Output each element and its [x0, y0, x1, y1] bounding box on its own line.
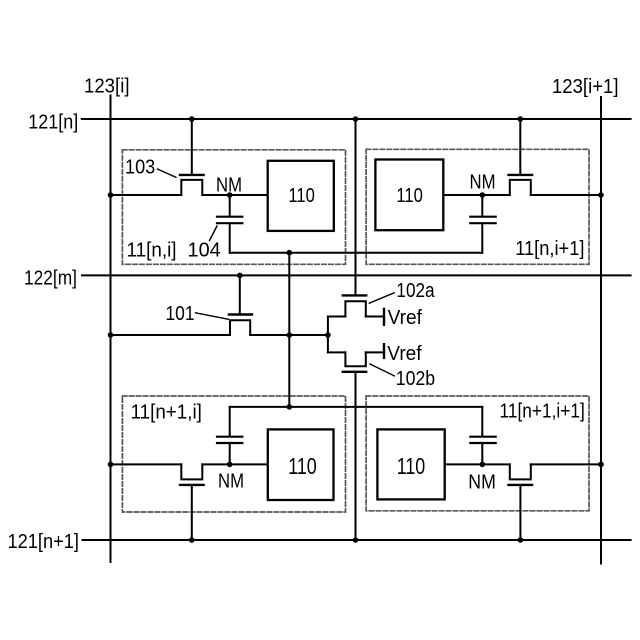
- capacitor 104 top plate: [217, 216, 242, 218]
- svg-text:110: 110: [288, 453, 317, 479]
- center gate wire lower: [355, 373, 357, 540]
- transistor 102a right arm: [366, 316, 383, 318]
- capacitor bottom-left top wire: [229, 407, 231, 436]
- transistor bottom-left gate bar: [180, 484, 204, 486]
- transistor 103 channel: [181, 180, 202, 195]
- wire bottom cells top link: [230, 406, 483, 408]
- svg-text:11[n+1,i+1]: 11[n+1,i+1]: [500, 401, 585, 423]
- capacitor top-right top wire: [481, 195, 483, 216]
- transistor 101 gate wire: [239, 275, 241, 313]
- svg-text:102b: 102b: [396, 368, 435, 390]
- row line 122[m]: [82, 274, 631, 276]
- transistor 101 channel: [230, 320, 250, 335]
- svg-text:104: 104: [188, 240, 221, 262]
- leader line 103: [158, 169, 177, 177]
- svg-text:121[n+1]: 121[n+1]: [8, 531, 80, 553]
- node NM bottom-right dot: [480, 462, 486, 468]
- junction dot gate 103 on 121[n]: [189, 116, 195, 122]
- wire top cells bottom link: [230, 252, 483, 254]
- junction dot gate bottom-left on 121[n+1]: [189, 537, 195, 543]
- junction dot rail bottom-left: [108, 462, 114, 468]
- wire block 110 to node NM top-right: [443, 194, 510, 196]
- capacitor bottom-right top wire: [481, 407, 483, 436]
- transistor bottom-right gate wire: [519, 486, 521, 540]
- transistor 102b right arm: [366, 351, 383, 353]
- capacitor bottom-left bottom plate: [217, 442, 242, 444]
- junction dot center on 121[n]: [353, 116, 359, 122]
- transistor 102a left arm: [328, 316, 346, 318]
- svg-text:NM: NM: [468, 471, 496, 493]
- transistor bottom-right gate bar: [509, 484, 533, 486]
- junction dot gate bottom-right on 121[n+1]: [518, 537, 524, 543]
- svg-text:123[i]: 123[i]: [84, 76, 130, 98]
- transistor bottom-left gate wire: [191, 486, 193, 540]
- node NM bottom-left dot: [227, 462, 233, 468]
- svg-text:11[n+1,i]: 11[n+1,i]: [131, 401, 202, 423]
- block 110 bottom-left: [268, 429, 334, 500]
- wire rail to transistor 103: [111, 194, 182, 196]
- junction dot gate 101 on 122[m]: [237, 273, 243, 279]
- transistor top-right channel: [510, 180, 531, 195]
- wire transistor 103 to node NM: [202, 194, 267, 196]
- svg-text:Vref: Vref: [388, 307, 423, 329]
- capacitor bottom-right bottom plate: [470, 442, 495, 444]
- wire transistor to rail top-right: [531, 194, 601, 196]
- svg-text:122[m]: 122[m]: [24, 267, 77, 289]
- node NM top-left dot: [227, 192, 233, 198]
- block 110 bottom-right: [377, 429, 444, 499]
- svg-text:123[i+1]: 123[i+1]: [552, 76, 619, 98]
- node dot 102 pair: [325, 332, 331, 338]
- transistor top-right gate wire: [519, 119, 521, 174]
- transistor 101 gate bar: [229, 313, 252, 315]
- cell box 11[n,i]: [122, 150, 345, 264]
- junction dot bottom link: [287, 250, 293, 256]
- transistor top-right gate bar: [509, 174, 533, 176]
- capacitor top-right bottom wire: [481, 224, 483, 252]
- capacitor 104 bottom plate: [217, 222, 242, 224]
- wire block 110 to node NM bottom-right: [445, 463, 510, 465]
- capacitor top-right bottom plate: [470, 222, 495, 224]
- transistor bottom-right channel: [510, 464, 531, 479]
- svg-text:NM: NM: [218, 470, 244, 492]
- Vref terminal tick lower: [383, 344, 385, 358]
- capacitor 104 bottom wire: [229, 224, 231, 252]
- block 110 top-right: [375, 160, 443, 231]
- junction dot top link: [287, 404, 293, 410]
- transistor 102b left arm: [328, 351, 346, 353]
- leader line 102a: [369, 293, 394, 303]
- wire transistor to node NM bottom-left: [202, 463, 267, 465]
- junction dot link line on 101 wire: [287, 332, 293, 338]
- leader line 102b: [370, 364, 395, 376]
- svg-text:102a: 102a: [396, 280, 435, 302]
- row line 121[n+1]: [83, 539, 631, 541]
- node NM top-right dot: [480, 192, 486, 198]
- wire transistor to rail bottom-right: [531, 463, 601, 465]
- capacitor top-right top plate: [470, 216, 495, 218]
- transistor 102a gate bar: [343, 294, 366, 296]
- capacitor 104 top wire: [229, 195, 231, 216]
- transistor 103 gate wire: [191, 119, 193, 174]
- svg-text:Vref: Vref: [387, 343, 422, 365]
- row line 121[n]: [82, 118, 631, 120]
- svg-text:NM: NM: [216, 174, 242, 196]
- transistor 102b channel: [345, 352, 365, 366]
- node vertical wire: [327, 317, 329, 353]
- capacitor bottom-right bottom wire: [481, 444, 483, 464]
- leader line 101: [196, 313, 229, 320]
- junction dot rail top-left: [108, 192, 114, 198]
- junction dot rail 101: [108, 332, 114, 338]
- column line 123[i]: [110, 96, 112, 563]
- center gate wire upper: [355, 119, 357, 294]
- wire rail to transistor bottom-left: [111, 463, 182, 465]
- Vref terminal tick upper: [383, 309, 385, 325]
- wire 101 left segment: [111, 334, 231, 336]
- svg-text:110: 110: [288, 185, 314, 207]
- svg-text:101: 101: [166, 303, 195, 325]
- transistor bottom-left channel: [181, 464, 202, 479]
- svg-text:121[n]: 121[n]: [28, 111, 78, 133]
- svg-text:103: 103: [125, 156, 155, 178]
- junction dot center on 121[n+1]: [353, 537, 359, 543]
- wire 101 right segment: [250, 334, 328, 336]
- transistor 103 gate bar: [180, 174, 204, 176]
- svg-text:11[n,i]: 11[n,i]: [127, 239, 177, 261]
- cell box 11[n+1,i+1]: [366, 396, 589, 511]
- svg-text:11[n,i+1]: 11[n,i+1]: [515, 238, 584, 260]
- junction dot rail top-right: [598, 192, 604, 198]
- transistor 102b gate bar: [343, 371, 366, 373]
- block 110 top-left: [268, 161, 334, 231]
- svg-text:110: 110: [396, 185, 422, 207]
- cell box 11[n+1,i]: [122, 396, 345, 512]
- column line 123[i+1]: [600, 97, 602, 564]
- leader line 104: [210, 226, 218, 241]
- transistor 102a channel: [345, 301, 365, 316]
- junction dot rail bottom-right: [598, 462, 604, 468]
- junction dot gate top-right on 121[n]: [518, 116, 524, 122]
- cell box 11[n,i+1]: [366, 149, 589, 264]
- capacitor bottom-left bottom wire: [229, 444, 231, 464]
- capacitor bottom-left top plate: [217, 436, 242, 438]
- capacitor bottom-right top plate: [470, 436, 495, 438]
- svg-text:NM: NM: [470, 172, 496, 194]
- link wire vertical: [288, 253, 290, 407]
- svg-text:110: 110: [397, 453, 426, 479]
